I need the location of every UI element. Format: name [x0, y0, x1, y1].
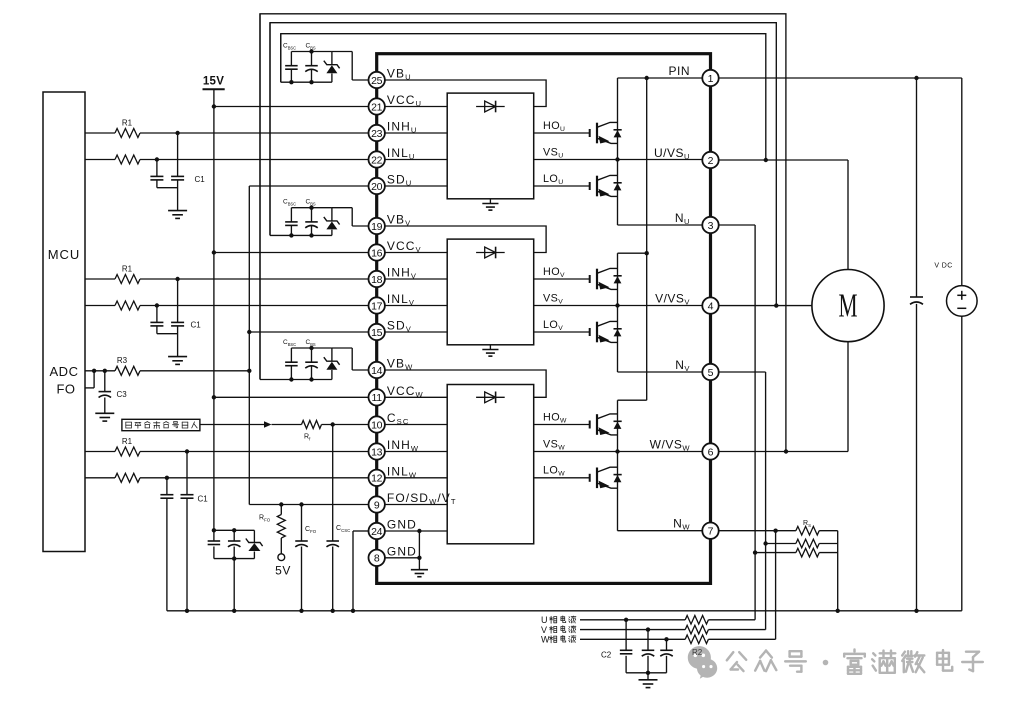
wire HOW gate [534, 424, 590, 426]
wire SD_V [249, 331, 368, 333]
zener diode [331, 348, 333, 361]
resistor RS3 [755, 552, 796, 554]
wire NW [618, 530, 703, 532]
wire VCCV into driver [385, 252, 447, 254]
svg-text:6: 6 [708, 446, 714, 458]
svg-text:V: V [541, 625, 547, 635]
svg-text:20: 20 [371, 181, 383, 193]
short-circuit protect label box [122, 419, 200, 430]
wire VSW [534, 451, 703, 453]
wire HOU gate [534, 132, 590, 134]
watermark wechat logo [688, 646, 717, 679]
svg-text:22: 22 [371, 154, 383, 166]
pin 4 [702, 297, 718, 313]
motor M [812, 270, 884, 342]
wire SDU into driver [385, 185, 447, 187]
svg-text:16: 16 [371, 247, 383, 259]
wire VCCU [214, 106, 369, 108]
resistor Rf [302, 421, 322, 429]
wire U phase current sense [580, 619, 685, 621]
wire U/VSU to motor [719, 159, 848, 161]
pin 16 (VCCV) [369, 244, 385, 260]
wire U phase half-bridge rail [617, 78, 619, 225]
svg-text:C1: C1 [195, 175, 206, 184]
wire W sense drop [775, 531, 777, 640]
wire 15V rail [213, 89, 215, 530]
capacitor CBSC [291, 51, 311, 53]
transistor IGBT HOW [589, 421, 591, 429]
svg-text:23: 23 [371, 128, 383, 140]
wire bootstrap return drop [259, 14, 261, 380]
wire INLW into driver [385, 477, 447, 479]
gate driver block V (HVIC) [447, 239, 534, 345]
wire RS common to bus [837, 531, 839, 611]
resistor R2 [685, 616, 708, 625]
resistor R1 [85, 132, 115, 134]
pin 15 (SDV) [369, 324, 385, 340]
wire V phase half-bridge rail [617, 253, 619, 372]
resistor (unlabeled) [85, 305, 115, 307]
svg-text:M: M [838, 288, 857, 325]
resistor R1 [85, 278, 115, 280]
pin 5 [702, 364, 718, 380]
ground [482, 349, 498, 351]
wire NW line [719, 530, 796, 532]
capacitor CFO [301, 505, 303, 542]
wire P bus [646, 78, 648, 400]
capacitor/zener decoupling group on 15V rail [214, 529, 255, 531]
svg-text:R1: R1 [122, 119, 133, 128]
svg-text:18: 18 [371, 274, 383, 286]
capacitor C3 [104, 371, 106, 392]
svg-text:15: 15 [371, 327, 383, 339]
svg-text:9: 9 [374, 499, 380, 511]
pin 18 (INHV) [369, 271, 385, 287]
svg-text:13: 13 [371, 446, 383, 458]
svg-text:4: 4 [708, 300, 714, 312]
pin 21 (VCCU) [369, 98, 385, 114]
wire VSV [534, 305, 703, 307]
svg-text:FO: FO [56, 382, 75, 397]
transistor IGBT LOV [589, 328, 591, 336]
wire FO pin line [249, 504, 368, 506]
svg-text:2: 2 [708, 155, 714, 167]
wire GND pin8 [385, 557, 420, 559]
transistor IGBT LOU [589, 182, 591, 190]
svg-text:C1: C1 [191, 321, 202, 330]
svg-text:R1: R1 [122, 437, 133, 446]
pin 2 [702, 152, 718, 168]
wire NV [618, 371, 703, 373]
resistor R2 [685, 625, 708, 634]
wire INHW into driver [385, 451, 447, 453]
IPM module outline [377, 54, 711, 584]
pin 8 (GND2) [369, 550, 385, 566]
resistor RS2 [766, 543, 796, 545]
capacitor DC link [916, 78, 918, 297]
wire to VB pin [351, 348, 353, 370]
transistor IGBT LOW [589, 474, 591, 482]
svg-text:11: 11 [372, 392, 383, 404]
transistor IGBT HOU [589, 129, 591, 137]
capacitor C2 (x3) [624, 618, 628, 622]
svg-text:25: 25 [371, 75, 383, 87]
svg-text:7: 7 [708, 526, 714, 538]
gate driver block W (LVIC) [447, 385, 534, 544]
arrow [264, 421, 272, 428]
wire NU [618, 224, 703, 226]
svg-text:MCU: MCU [48, 247, 81, 262]
svg-text:12: 12 [371, 473, 383, 485]
wire LOU gate [534, 185, 590, 187]
ground [95, 412, 114, 414]
wire bootstrap return drop [269, 23, 271, 236]
wire SDV into driver [385, 331, 447, 333]
pin 11 (VCCW) [369, 389, 385, 405]
wire W phase half-bridge rail [617, 400, 619, 531]
wire to ground bus [233, 559, 235, 611]
ground [168, 210, 187, 212]
capacitor C1 (pair) [175, 131, 179, 135]
svg-text:C1: C1 [198, 495, 209, 504]
capacitor CBS [311, 348, 313, 362]
pin 13 (INHW) [369, 443, 385, 459]
wire LOW gate [534, 477, 590, 479]
resistor RS1 [796, 526, 819, 535]
resistor R2 [685, 635, 708, 644]
wire NU sense drop [719, 224, 755, 226]
wire V phase current sense [580, 629, 685, 631]
svg-text:R2: R2 [692, 648, 703, 657]
svg-text:8: 8 [374, 553, 380, 565]
wire SD_U [249, 185, 368, 187]
svg-text:GND: GND [387, 544, 417, 558]
pin 25 (VBU) [369, 72, 385, 88]
transistor IGBT HOV [589, 275, 591, 283]
capacitor CBS [311, 208, 313, 222]
svg-text:15V: 15V [203, 76, 224, 88]
pin 22 (INLU) [369, 151, 385, 167]
pin 3 [702, 217, 718, 233]
gate driver block U (HVIC) [447, 93, 534, 199]
ground [168, 356, 187, 358]
svg-text:5V: 5V [275, 564, 291, 578]
5V terminal [278, 554, 285, 561]
wire FO stub [85, 387, 94, 389]
wire INHU into driver [385, 132, 447, 134]
svg-text:ADC: ADC [50, 364, 79, 379]
svg-text:PIN: PIN [668, 64, 690, 78]
wire CSC into driver [385, 424, 447, 426]
svg-text:24: 24 [371, 526, 383, 538]
pin 23 (INHU) [369, 125, 385, 141]
wire VSU [534, 159, 703, 161]
zener diode [331, 208, 333, 221]
pin 20 (SDU) [369, 178, 385, 194]
resistor (unlabeled) [85, 159, 115, 161]
resistor R1 [85, 451, 115, 453]
resistor R3 [85, 370, 115, 372]
svg-text:C2: C2 [601, 651, 612, 660]
wire W/VSW to motor [719, 451, 848, 453]
wire HOV gate [534, 278, 590, 280]
label short-circuit protection signal input [126, 422, 132, 428]
svg-text:FO/SDW/VT: FO/SDW/VT [387, 491, 457, 506]
pin 17 (INLV) [369, 297, 385, 313]
wire VCCW [214, 396, 369, 398]
pin 6 [702, 443, 718, 459]
wire NV sense drop [719, 371, 766, 373]
zener diode [253, 530, 255, 542]
ground [482, 203, 498, 205]
wire to VB pin [351, 52, 353, 81]
wire VCCW into driver [385, 396, 447, 398]
wire DC+ to VDC [719, 77, 962, 79]
svg-text:5: 5 [708, 367, 714, 379]
resistor (unlabeled) [85, 477, 115, 479]
svg-text:C3: C3 [117, 390, 128, 399]
svg-text:U: U [541, 615, 548, 625]
pin 19 (VBV) [369, 218, 385, 234]
wire VS-return rail V phase (middle loop) [270, 23, 776, 306]
pin 14 (VBW) [369, 362, 385, 378]
pin 7 [702, 523, 718, 539]
svg-text:W: W [541, 635, 550, 645]
wire GND pin24 [385, 530, 447, 532]
wire FO into driver [385, 504, 447, 506]
wire VB to driver bootstrap [385, 226, 546, 253]
ground [411, 569, 428, 571]
wire PIN line [618, 77, 703, 79]
wire INLU into driver [385, 159, 447, 161]
pin 10 (CSC) [369, 416, 385, 432]
wire VCCU into driver [385, 106, 447, 108]
capacitor C1 (pair) [185, 449, 189, 453]
wire VS-return rail U phase (inner loop) [281, 34, 766, 160]
svg-text:3: 3 [708, 220, 714, 232]
MCU block [43, 92, 85, 552]
wire INLV into driver [385, 305, 447, 307]
capacitor CBS [311, 52, 313, 66]
wire VS-return rail W phase (outer loop) [260, 14, 786, 452]
svg-text:R3: R3 [117, 356, 128, 365]
wire LOV gate [534, 331, 590, 333]
wire INHV into driver [385, 278, 447, 280]
pin 9 (FO) [369, 496, 385, 512]
zener diode [331, 52, 333, 65]
svg-text:1: 1 [708, 73, 714, 85]
pin 24 (GND1) [369, 523, 385, 539]
svg-text:14: 14 [371, 365, 383, 377]
capacitor CBSC [291, 207, 311, 209]
wire W phase current sense [580, 638, 685, 640]
svg-text:10: 10 [371, 419, 383, 431]
ground [639, 679, 658, 681]
wire VB to driver bootstrap [385, 80, 546, 107]
svg-text:19: 19 [371, 221, 383, 233]
wire ground bus [167, 610, 962, 612]
resistor RFO [280, 505, 282, 515]
wire V/VSV to motor [719, 305, 813, 307]
battery VDC [961, 78, 963, 286]
pin 1 [702, 70, 718, 86]
capacitor CBSC [291, 347, 311, 349]
wire bootstrap return drop [280, 34, 282, 82]
capacitor C1 (pair) [175, 277, 179, 281]
svg-text:R1: R1 [122, 265, 133, 274]
watermark text [727, 652, 746, 671]
wire CSC input [200, 424, 264, 426]
wire SD/FO tie vertical [248, 186, 250, 505]
capacitor CCSC [332, 425, 334, 542]
wire VCCV [214, 252, 369, 254]
svg-text:V DC: V DC [934, 263, 952, 270]
wire VB to driver bootstrap [385, 370, 546, 397]
svg-text:21: 21 [371, 101, 383, 113]
wire to VB pin [351, 208, 353, 226]
pin 12 (INLW) [369, 470, 385, 486]
svg-text:GND: GND [387, 518, 417, 532]
svg-text:17: 17 [371, 300, 383, 312]
